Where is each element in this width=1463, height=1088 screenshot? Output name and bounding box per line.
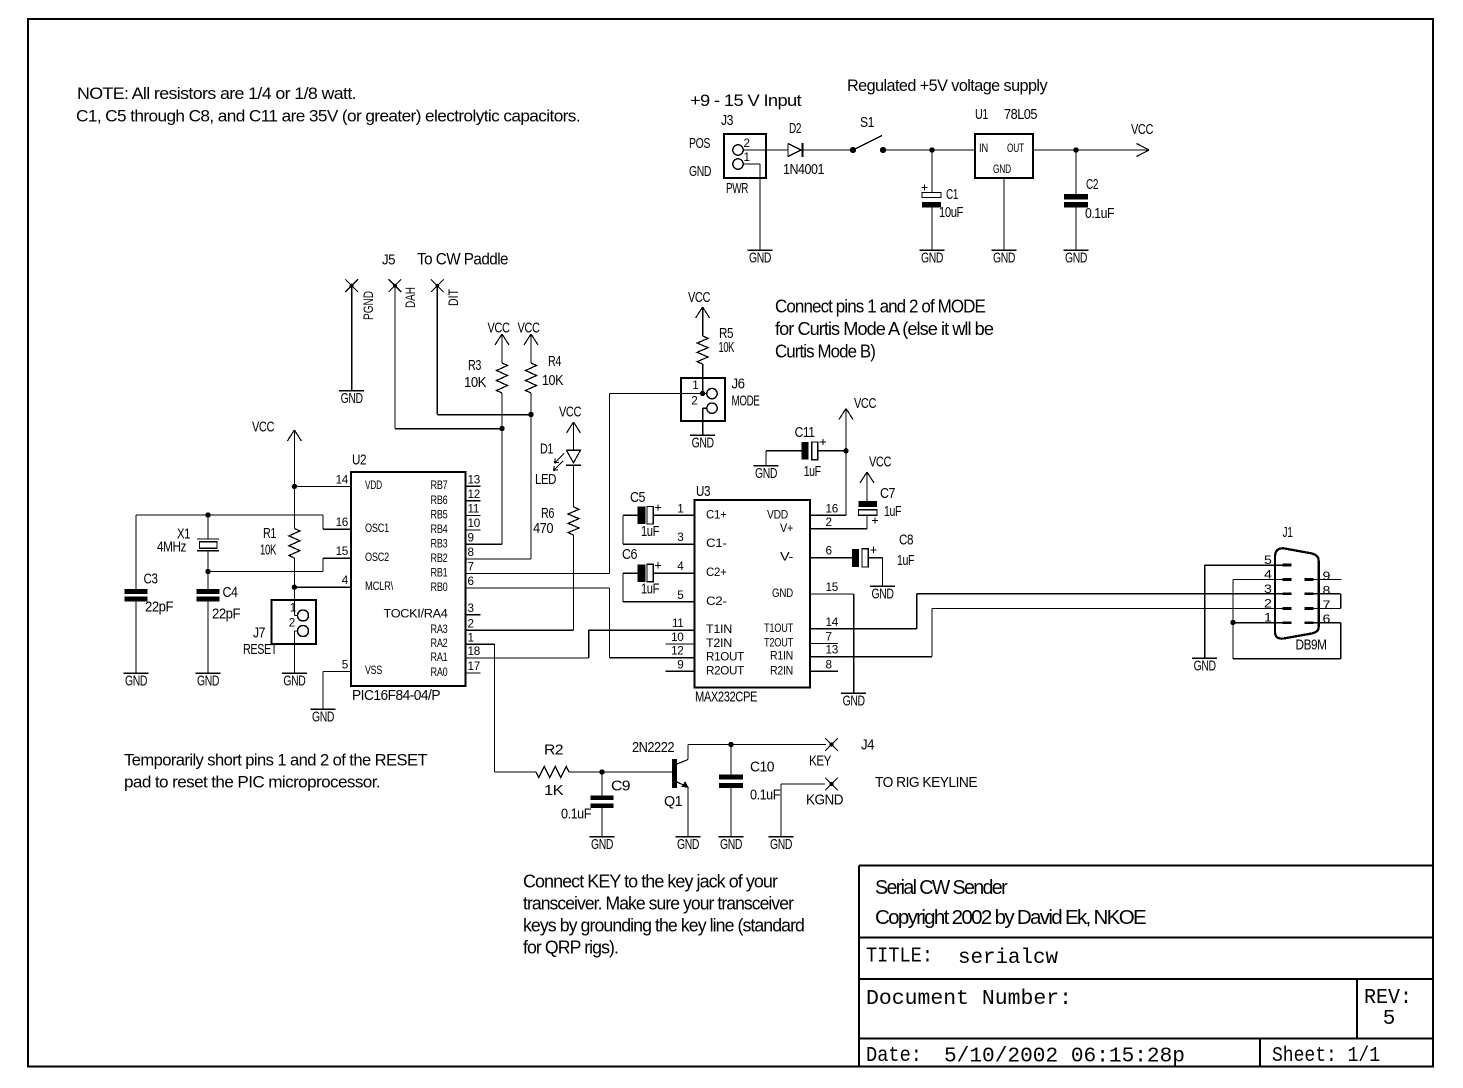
svg-text:3: 3 — [1264, 583, 1272, 596]
svg-text:17: 17 — [468, 660, 480, 673]
svg-text:0.1uF: 0.1uF — [561, 807, 592, 823]
svg-text:GND: GND — [1194, 659, 1216, 675]
svg-text:2: 2 — [289, 617, 295, 630]
svg-text:GND: GND — [993, 251, 1015, 267]
svg-text:5: 5 — [677, 589, 684, 602]
svg-text:3: 3 — [468, 602, 474, 615]
svg-text:6: 6 — [468, 575, 474, 588]
svg-text:GND: GND — [689, 164, 711, 180]
svg-text:RB5: RB5 — [431, 507, 448, 521]
svg-text:VSS: VSS — [365, 663, 382, 677]
svg-text:pad to reset the PIC microproc: pad to reset the PIC microprocessor. — [124, 773, 380, 792]
svg-text:Connect pins 1 and 2 of MODE: Connect pins 1 and 2 of MODE — [775, 297, 986, 317]
svg-text:R2: R2 — [544, 743, 564, 759]
svg-text:GND: GND — [720, 837, 742, 853]
svg-text:T1OUT: T1OUT — [764, 621, 794, 635]
svg-text:T1IN: T1IN — [706, 622, 732, 636]
svg-text:1uF: 1uF — [897, 553, 914, 569]
svg-text:RB7: RB7 — [431, 478, 448, 492]
svg-text:J1: J1 — [1283, 525, 1293, 541]
svg-text:LED: LED — [535, 472, 556, 488]
svg-text:GND: GND — [770, 837, 792, 853]
svg-text:VCC: VCC — [559, 405, 581, 421]
svg-text:GND: GND — [341, 391, 363, 407]
svg-text:13: 13 — [468, 473, 480, 486]
svg-text:U2: U2 — [352, 453, 366, 469]
svg-text:Serial CW Sender: Serial CW Sender — [875, 876, 1008, 899]
svg-text:Copyright 2002 by David Ek, NK: Copyright 2002 by David Ek, NKOE — [875, 906, 1146, 929]
svg-text:1uF: 1uF — [804, 464, 821, 480]
svg-text:11: 11 — [468, 503, 480, 516]
svg-text:Date:: Date: — [866, 1045, 922, 1068]
svg-text:1uF: 1uF — [641, 582, 660, 598]
svg-text:6: 6 — [826, 545, 832, 558]
svg-text:VCC: VCC — [688, 290, 710, 306]
svg-text:for Curtis Mode A (else it wll: for Curtis Mode A (else it wll be — [775, 319, 994, 339]
svg-text:2N2222: 2N2222 — [632, 740, 674, 756]
svg-text:T2IN: T2IN — [706, 636, 732, 650]
svg-text:12: 12 — [468, 488, 480, 501]
svg-text:V-: V- — [780, 550, 793, 564]
svg-text:2: 2 — [1264, 597, 1272, 610]
svg-text:2: 2 — [744, 137, 750, 150]
svg-text:V+: V+ — [780, 521, 793, 535]
svg-text:4: 4 — [342, 574, 349, 587]
svg-text:8: 8 — [468, 546, 474, 559]
svg-text:GND: GND — [197, 674, 219, 690]
svg-text:5: 5 — [1383, 1008, 1396, 1031]
svg-text:13: 13 — [826, 644, 838, 657]
svg-text:T2OUT: T2OUT — [764, 635, 794, 649]
svg-text:POS: POS — [689, 136, 710, 152]
svg-text:12: 12 — [671, 645, 683, 658]
svg-text:C5: C5 — [630, 490, 645, 506]
svg-text:22pF: 22pF — [145, 600, 174, 616]
svg-text:GND: GND — [872, 587, 894, 603]
svg-text:GND: GND — [755, 466, 777, 482]
svg-text:PGND: PGND — [361, 291, 376, 320]
svg-text:RB0: RB0 — [431, 580, 448, 594]
svg-text:1: 1 — [290, 602, 296, 615]
svg-text:MAX232CPE: MAX232CPE — [695, 690, 758, 706]
svg-text:18: 18 — [468, 645, 480, 658]
svg-text:4MHz: 4MHz — [157, 540, 186, 556]
svg-text:Q1: Q1 — [664, 794, 682, 810]
svg-text:14: 14 — [336, 473, 349, 486]
svg-text:14: 14 — [826, 616, 839, 629]
svg-text:Temporarily short pins 1 and 2: Temporarily short pins 1 and 2 of the RE… — [124, 751, 427, 770]
svg-text:C2+: C2+ — [706, 565, 727, 579]
svg-text:+9 - 15 V Input: +9 - 15 V Input — [690, 91, 802, 110]
svg-text:TOCKI/RA4: TOCKI/RA4 — [384, 607, 448, 621]
svg-text:MCLR\: MCLR\ — [365, 579, 394, 593]
svg-text:KGND: KGND — [806, 793, 843, 809]
svg-text:Curtis Mode B): Curtis Mode B) — [775, 342, 875, 362]
svg-text:15: 15 — [826, 581, 839, 594]
svg-text:C1+: C1+ — [706, 507, 727, 521]
svg-text:9: 9 — [677, 658, 683, 671]
svg-text:GND: GND — [772, 586, 793, 600]
svg-text:C8: C8 — [899, 533, 913, 549]
svg-text:1uF: 1uF — [884, 504, 901, 520]
svg-text:R6: R6 — [541, 506, 554, 522]
svg-text:for QRP rigs).: for QRP rigs). — [523, 938, 618, 958]
svg-text:5: 5 — [342, 658, 349, 671]
svg-text:4: 4 — [677, 560, 684, 573]
svg-text:GND: GND — [1065, 251, 1087, 267]
svg-text:1N4001: 1N4001 — [783, 162, 824, 178]
svg-text:1: 1 — [744, 151, 750, 164]
svg-text:RA2: RA2 — [431, 636, 448, 650]
svg-text:VCC: VCC — [869, 455, 891, 471]
svg-text:J4: J4 — [861, 738, 874, 754]
svg-text:10K: 10K — [542, 373, 564, 389]
svg-text:GND: GND — [677, 837, 699, 853]
svg-text:C6: C6 — [622, 547, 637, 563]
svg-text:C11: C11 — [795, 425, 815, 441]
svg-text:C7: C7 — [880, 486, 895, 502]
svg-text:8: 8 — [1323, 584, 1331, 597]
svg-text:Regulated +5V voltage supply: Regulated +5V voltage supply — [847, 76, 1048, 95]
svg-text:RA0: RA0 — [431, 665, 448, 679]
svg-text:7: 7 — [468, 561, 474, 574]
svg-text:GND: GND — [283, 674, 305, 690]
svg-text:1: 1 — [677, 502, 683, 515]
svg-text:DAH: DAH — [403, 287, 418, 308]
svg-text:R2OUT: R2OUT — [706, 663, 745, 677]
svg-text:6: 6 — [1323, 613, 1331, 626]
svg-text:U1: U1 — [975, 107, 988, 123]
svg-text:R1IN: R1IN — [770, 649, 793, 663]
svg-text:OSC1: OSC1 — [365, 521, 389, 535]
svg-text:C10: C10 — [750, 760, 774, 776]
svg-text:15: 15 — [336, 545, 349, 558]
svg-text:VDD: VDD — [365, 478, 382, 492]
svg-text:10K: 10K — [260, 543, 277, 559]
svg-text:GND: GND — [692, 436, 714, 452]
svg-text:R1OUT: R1OUT — [706, 650, 745, 664]
svg-text:C1-: C1- — [706, 536, 727, 550]
svg-text:VCC: VCC — [1131, 122, 1153, 138]
svg-text:1: 1 — [468, 631, 474, 644]
svg-text:C3: C3 — [144, 572, 158, 588]
svg-text:Document Number:: Document Number: — [866, 988, 1072, 1011]
svg-text:TO RIG KEYLINE: TO RIG KEYLINE — [875, 775, 978, 791]
svg-text:C4: C4 — [223, 585, 238, 601]
svg-text:0.1uF: 0.1uF — [1085, 206, 1115, 222]
svg-text:D2: D2 — [789, 121, 801, 137]
svg-text:J5: J5 — [382, 253, 395, 269]
svg-text:R2IN: R2IN — [770, 663, 793, 677]
svg-text:KEY: KEY — [809, 754, 832, 770]
svg-text:3: 3 — [677, 531, 683, 544]
svg-text:11: 11 — [672, 617, 684, 630]
svg-text:C2-: C2- — [706, 594, 727, 608]
svg-text:IN: IN — [979, 141, 988, 155]
svg-text:keys by grounding the key line: keys by grounding the key line (standard — [523, 916, 804, 936]
svg-text:OUT: OUT — [1007, 141, 1025, 155]
svg-text:470: 470 — [533, 521, 553, 537]
svg-text:C1, C5 through C8, and C11 are: C1, C5 through C8, and C11 are 35V (or g… — [76, 107, 580, 126]
svg-text:REV:: REV: — [1364, 987, 1412, 1010]
svg-text:Sheet: 1/1: Sheet: 1/1 — [1272, 1045, 1380, 1068]
svg-text:J3: J3 — [721, 113, 733, 129]
svg-text:TITLE:: TITLE: — [866, 946, 933, 969]
svg-text:GND: GND — [312, 710, 334, 726]
svg-text:1uF: 1uF — [641, 524, 660, 540]
svg-text:5/10/2002 06:15:28p: 5/10/2002 06:15:28p — [944, 1046, 1185, 1069]
svg-text:OSC2: OSC2 — [365, 550, 389, 564]
svg-text:10uF: 10uF — [939, 205, 964, 221]
svg-text:RB3: RB3 — [431, 536, 448, 550]
svg-text:16: 16 — [336, 516, 348, 529]
svg-text:78L05: 78L05 — [1004, 107, 1037, 123]
svg-text:J6: J6 — [732, 377, 745, 393]
svg-text:transceiver. Make sure your tr: transceiver. Make sure your transceiver — [523, 894, 794, 914]
svg-text:2: 2 — [691, 395, 697, 408]
svg-text:C2: C2 — [1086, 177, 1098, 193]
svg-text:RA1: RA1 — [431, 650, 448, 664]
svg-text:C1: C1 — [946, 187, 958, 203]
svg-text:GND: GND — [749, 251, 771, 267]
svg-text:DIT: DIT — [446, 289, 461, 306]
svg-text:PIC16F84-04/P: PIC16F84-04/P — [352, 688, 440, 704]
svg-text:GND: GND — [591, 837, 613, 853]
svg-text:PWR: PWR — [726, 181, 748, 197]
svg-text:1: 1 — [692, 379, 698, 392]
svg-text:R1: R1 — [263, 526, 276, 542]
svg-text:To CW Paddle: To CW Paddle — [417, 250, 508, 269]
svg-text:D1: D1 — [540, 442, 553, 458]
svg-text:9: 9 — [468, 532, 474, 545]
svg-text:DB9M: DB9M — [1296, 638, 1327, 654]
svg-text:7: 7 — [826, 630, 832, 643]
svg-text:J7: J7 — [253, 626, 265, 642]
svg-text:GND: GND — [843, 694, 865, 710]
svg-text:0.1uF: 0.1uF — [750, 788, 781, 804]
svg-text:R4: R4 — [548, 354, 561, 370]
svg-text:RB1: RB1 — [431, 565, 448, 579]
svg-text:S1: S1 — [860, 115, 874, 131]
svg-text:GND: GND — [921, 251, 943, 267]
svg-text:1K: 1K — [544, 783, 564, 799]
svg-text:U3: U3 — [696, 484, 710, 500]
svg-text:RESET: RESET — [243, 642, 278, 658]
svg-text:R3: R3 — [468, 358, 481, 374]
svg-text:10K: 10K — [464, 375, 487, 391]
svg-text:RA3: RA3 — [431, 622, 448, 636]
svg-text:8: 8 — [826, 658, 832, 671]
svg-text:10: 10 — [671, 631, 684, 644]
svg-text:RB4: RB4 — [431, 522, 448, 536]
svg-text:9: 9 — [1323, 570, 1331, 583]
svg-text:2: 2 — [468, 617, 474, 630]
svg-text:16: 16 — [826, 502, 838, 515]
svg-text:VCC: VCC — [854, 396, 876, 412]
svg-text:VCC: VCC — [252, 420, 274, 436]
svg-text:10K: 10K — [719, 340, 735, 356]
svg-text:10: 10 — [468, 517, 481, 530]
svg-text:VCC: VCC — [488, 321, 510, 337]
svg-text:serialcw: serialcw — [958, 947, 1058, 970]
svg-text:NOTE: All resistors are 1/4 or: NOTE: All resistors are 1/4 or 1/8 watt. — [77, 84, 356, 103]
svg-text:MODE: MODE — [732, 394, 761, 410]
svg-text:RB2: RB2 — [431, 551, 448, 565]
svg-text:RB6: RB6 — [431, 493, 448, 507]
svg-text:C9: C9 — [611, 779, 631, 795]
svg-text:2: 2 — [826, 516, 832, 529]
svg-text:GND: GND — [125, 674, 147, 690]
svg-text:GND: GND — [993, 162, 1011, 176]
svg-text:VCC: VCC — [518, 321, 540, 337]
svg-text:22pF: 22pF — [212, 607, 241, 623]
svg-text:7: 7 — [1323, 599, 1331, 612]
svg-text:VDD: VDD — [767, 507, 788, 521]
svg-text:Connect KEY to the key jack of: Connect KEY to the key jack of your — [523, 872, 778, 892]
